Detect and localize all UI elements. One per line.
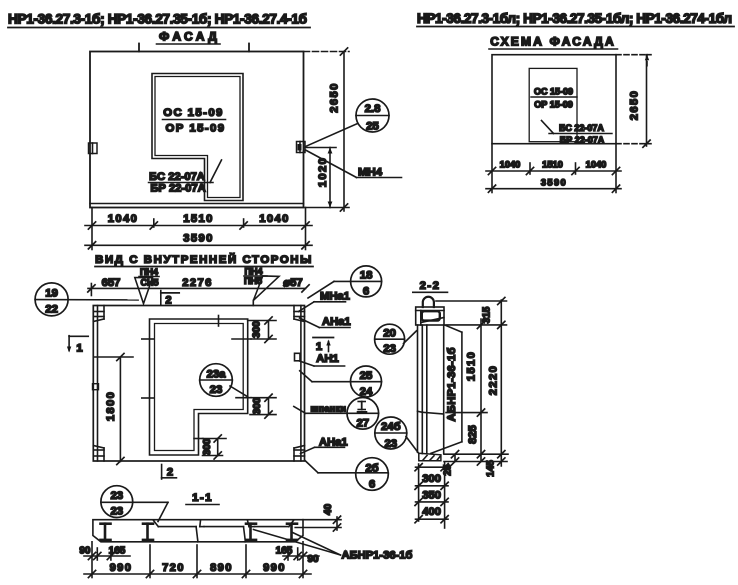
anchor АН1 square right edge xyxy=(295,353,301,361)
svg-text:ФАСАД: ФАСАД xyxy=(159,30,219,44)
svg-text:22: 22 xyxy=(45,304,58,316)
svg-text:ПН4: ПН4 xyxy=(140,267,158,277)
section mark 2 bottom xyxy=(162,465,177,480)
heading СХЕМА ФАСАДА xyxy=(489,35,618,50)
callout circle 20/23 xyxy=(375,324,417,355)
callout circle 2б/6 xyxy=(305,458,389,491)
svg-text:19: 19 xyxy=(45,288,58,300)
dimension 300 mid-right of opening xyxy=(250,394,276,418)
label АБНР1-36-1б with leaders to channels xyxy=(254,530,413,562)
corner groove mark top-left xyxy=(93,306,104,322)
svg-text:90: 90 xyxy=(307,554,319,565)
embedded part left edge xyxy=(89,143,98,154)
facade window opening (L-shape, double line) xyxy=(152,74,243,201)
svg-text:18: 18 xyxy=(360,270,373,282)
callout circle 23/23 over section 1-1 xyxy=(101,486,168,522)
svg-text:40: 40 xyxy=(323,504,334,516)
label АН1 with leader xyxy=(300,353,345,366)
dimensions 90/165 left under 1-1 xyxy=(79,542,130,578)
svg-text:1040: 1040 xyxy=(586,160,607,170)
svg-text:165: 165 xyxy=(276,546,293,557)
svg-text:1510: 1510 xyxy=(183,213,214,225)
rebar tick top frame xyxy=(218,316,220,327)
svg-text:АБНР1-36-1б: АБНР1-36-1б xyxy=(342,550,413,562)
svg-text:1-1: 1-1 xyxy=(192,492,213,504)
svg-text:300: 300 xyxy=(252,321,263,338)
callout circle 2.8/25 xyxy=(306,99,390,147)
weld flag right with labels ПН4/ПН5 xyxy=(244,267,279,306)
title block right: НР1-36.27.3-1бл list xyxy=(417,11,734,27)
corner groove mark bottom-left xyxy=(93,446,104,462)
svg-text:3590: 3590 xyxy=(183,233,214,245)
svg-text:2650: 2650 xyxy=(629,90,641,121)
dimension extensions 2-2 xyxy=(436,301,508,462)
svg-text:315: 315 xyxy=(482,306,493,323)
svg-text:990: 990 xyxy=(110,562,133,574)
top dimension row 657 / 2276 / ⌀57 xyxy=(88,277,309,296)
dimension 300 top-right of opening xyxy=(248,317,276,343)
svg-text:ОР 15-09: ОР 15-09 xyxy=(166,123,226,135)
corner groove mark bottom-right xyxy=(294,446,305,462)
callout circle 19/22 xyxy=(35,283,138,316)
svg-text:23: 23 xyxy=(110,506,123,518)
svg-text:657: 657 xyxy=(102,277,121,289)
rebar tick right frame upper xyxy=(232,338,251,340)
stacked dimensions 300/350/400 xyxy=(415,462,448,528)
dimension row 1040/1510/1040 under facade xyxy=(85,208,312,250)
svg-text:ОС 15-09: ОС 15-09 xyxy=(534,87,573,97)
svg-text:990: 990 xyxy=(263,562,286,574)
heading ФАСАД xyxy=(157,30,221,45)
label шпанки + callout circle I/27 xyxy=(294,398,379,430)
dimension row 990/720/890/990 xyxy=(84,545,311,578)
heading 2-2 xyxy=(413,280,448,292)
callout hexagon АБНР1-36-1б xyxy=(431,325,462,454)
callout circle 25/24 xyxy=(300,366,382,398)
svg-text:25: 25 xyxy=(360,370,373,382)
dimension line 315/2220/145 xyxy=(482,297,505,476)
svg-text:23: 23 xyxy=(384,438,397,450)
section mark 1 left xyxy=(67,336,88,355)
svg-text:ОС 15-09: ОС 15-09 xyxy=(163,107,224,119)
svg-text:27: 27 xyxy=(356,418,369,430)
schema window opening xyxy=(529,68,577,141)
rebar tick right frame lower xyxy=(236,397,251,399)
svg-text:720: 720 xyxy=(162,562,185,574)
svg-text:шпанки: шпанки xyxy=(311,404,347,414)
callout circle 23а/23 xyxy=(200,364,248,397)
label МН4 xyxy=(306,150,402,179)
embedded part МН4 right edge xyxy=(297,142,306,153)
section 1-1 slab outline xyxy=(93,520,303,542)
svg-text:2: 2 xyxy=(165,295,171,307)
schema dimension 3590 xyxy=(486,178,621,193)
svg-text:23: 23 xyxy=(210,384,223,396)
svg-text:НР1-36.27.3-1бл; НР1-36.27.35-: НР1-36.27.3-1бл; НР1-36.27.35-1бл; НР1-3… xyxy=(417,11,732,26)
svg-text:НР1-36.27.3-1б; НР1-36.27.35-1: НР1-36.27.3-1б; НР1-36.27.35-1б; НР1-36.… xyxy=(8,12,307,27)
schema label ОС 15-09 / ОР 15-09 xyxy=(531,87,577,110)
label АНа1 lower with leader xyxy=(301,437,348,454)
section 1-1 rib recess lines xyxy=(154,521,294,542)
schema dimension 2650 xyxy=(616,55,651,148)
svg-text:2.8: 2.8 xyxy=(365,103,381,115)
svg-text:825: 825 xyxy=(467,425,479,444)
svg-text:1510: 1510 xyxy=(466,351,478,382)
svg-text:ПН4: ПН4 xyxy=(245,267,263,277)
dimension 1020 xyxy=(305,148,336,208)
section 2-2 head box xyxy=(416,307,444,325)
dimension 25 at base plate xyxy=(443,451,459,476)
svg-text:165: 165 xyxy=(109,546,126,557)
base plate of section 2-2 xyxy=(419,453,441,461)
heading ВИД С ВНУТРЕННЕЙ СТОРОНЫ xyxy=(95,253,313,267)
rebar tick left frame upper xyxy=(142,338,154,340)
channel section marks (⌶) in 1-1 xyxy=(101,524,298,540)
dimension line 1510/825 xyxy=(466,319,485,465)
dimension 300 bottom of opening foot xyxy=(202,435,226,459)
dimension 1800 left inside panel xyxy=(95,353,133,464)
svg-text:БС 22-07А: БС 22-07А xyxy=(559,123,604,133)
svg-text:ОР 15-09: ОР 15-09 xyxy=(534,100,573,110)
svg-text:24б: 24б xyxy=(381,421,401,433)
svg-text:⌀57: ⌀57 xyxy=(283,277,302,289)
lifting hook of section 2-2 xyxy=(423,297,434,307)
svg-text:6: 6 xyxy=(363,286,369,298)
section mark 1 right (arrow up) xyxy=(313,338,334,354)
dimensions 165/90 right under 1-1 xyxy=(276,542,319,578)
svg-text:СХЕМА ФАСАДА: СХЕМА ФАСАДА xyxy=(490,35,616,49)
svg-text:1040: 1040 xyxy=(500,160,521,170)
svg-text:300: 300 xyxy=(202,438,213,455)
svg-text:2-2: 2-2 xyxy=(420,280,441,292)
svg-text:ВИД С ВНУТРЕННЕЙ СТОРОНЫ: ВИД С ВНУТРЕННЕЙ СТОРОНЫ xyxy=(95,253,313,266)
facade panel outline xyxy=(90,44,304,208)
heading 1-1 xyxy=(186,492,219,505)
title block left: НР1-36.27.3-1б list xyxy=(8,12,310,28)
svg-text:24: 24 xyxy=(360,386,373,398)
dimension 2650 right of facade xyxy=(304,48,350,211)
svg-text:350: 350 xyxy=(422,490,441,502)
svg-text:1510: 1510 xyxy=(542,160,563,170)
rebar tick left frame lower xyxy=(142,397,154,399)
svg-text:6: 6 xyxy=(369,479,375,491)
callout circle 24б/23 xyxy=(375,417,419,454)
svg-text:1040: 1040 xyxy=(108,213,139,225)
svg-text:АН1: АН1 xyxy=(316,353,338,365)
section 2-2 body xyxy=(418,325,444,454)
svg-text:1: 1 xyxy=(316,341,322,353)
svg-text:2: 2 xyxy=(167,467,173,479)
svg-text:АНа1: АНа1 xyxy=(322,316,351,328)
inner view panel outline xyxy=(93,306,304,462)
schema label БС 22-07А / БР 22-07А xyxy=(542,121,613,146)
label МНа1 with leader xyxy=(299,291,350,312)
label АНа1 upper with leader xyxy=(300,316,351,328)
svg-text:23: 23 xyxy=(383,343,396,355)
svg-text:3590: 3590 xyxy=(541,178,567,188)
section mark 2 top xyxy=(161,291,179,307)
svg-text:25: 25 xyxy=(366,121,379,133)
svg-text:145: 145 xyxy=(486,460,497,477)
svg-text:МНа1: МНа1 xyxy=(320,291,350,303)
label БС 22-07А / БР 22-07А xyxy=(149,160,222,195)
dimension 3590 under facade xyxy=(85,233,312,249)
corner groove mark top-right xyxy=(294,306,305,322)
label ОС 15-09 / ОР 15-09 xyxy=(163,107,226,135)
embedded part mid-left edge xyxy=(93,384,99,390)
svg-text:20: 20 xyxy=(383,328,396,340)
svg-text:300: 300 xyxy=(422,473,441,485)
schema panel outline xyxy=(492,55,616,144)
svg-text:1800: 1800 xyxy=(105,391,117,422)
svg-text:2220: 2220 xyxy=(488,365,500,396)
svg-text:300: 300 xyxy=(252,397,263,414)
svg-text:2650: 2650 xyxy=(329,82,341,113)
svg-text:БР 22-07А: БР 22-07А xyxy=(560,135,605,145)
rebar tick foot left frame xyxy=(194,438,203,440)
dimension 40 right of 1-1 xyxy=(295,504,341,532)
callout circle 18/6 xyxy=(308,266,382,298)
svg-text:БР 22-07А: БР 22-07А xyxy=(150,183,205,195)
inner view opening (mirrored L, double line) xyxy=(150,319,248,455)
svg-text:1040: 1040 xyxy=(259,213,290,225)
svg-text:1: 1 xyxy=(76,343,82,355)
svg-text:890: 890 xyxy=(210,562,233,574)
svg-text:90: 90 xyxy=(79,546,91,557)
svg-text:23: 23 xyxy=(110,490,123,502)
svg-text:АБНР1-36-1б: АБНР1-36-1б xyxy=(446,347,458,421)
svg-text:2276: 2276 xyxy=(182,277,213,289)
svg-text:23а: 23а xyxy=(206,369,226,381)
svg-text:БС 22-07А: БС 22-07А xyxy=(149,171,205,183)
weld flag left with labels ПН4/СН5 xyxy=(135,267,159,304)
svg-text:400: 400 xyxy=(422,506,441,518)
schema dimension row 1040/1510/1040 xyxy=(486,144,621,193)
